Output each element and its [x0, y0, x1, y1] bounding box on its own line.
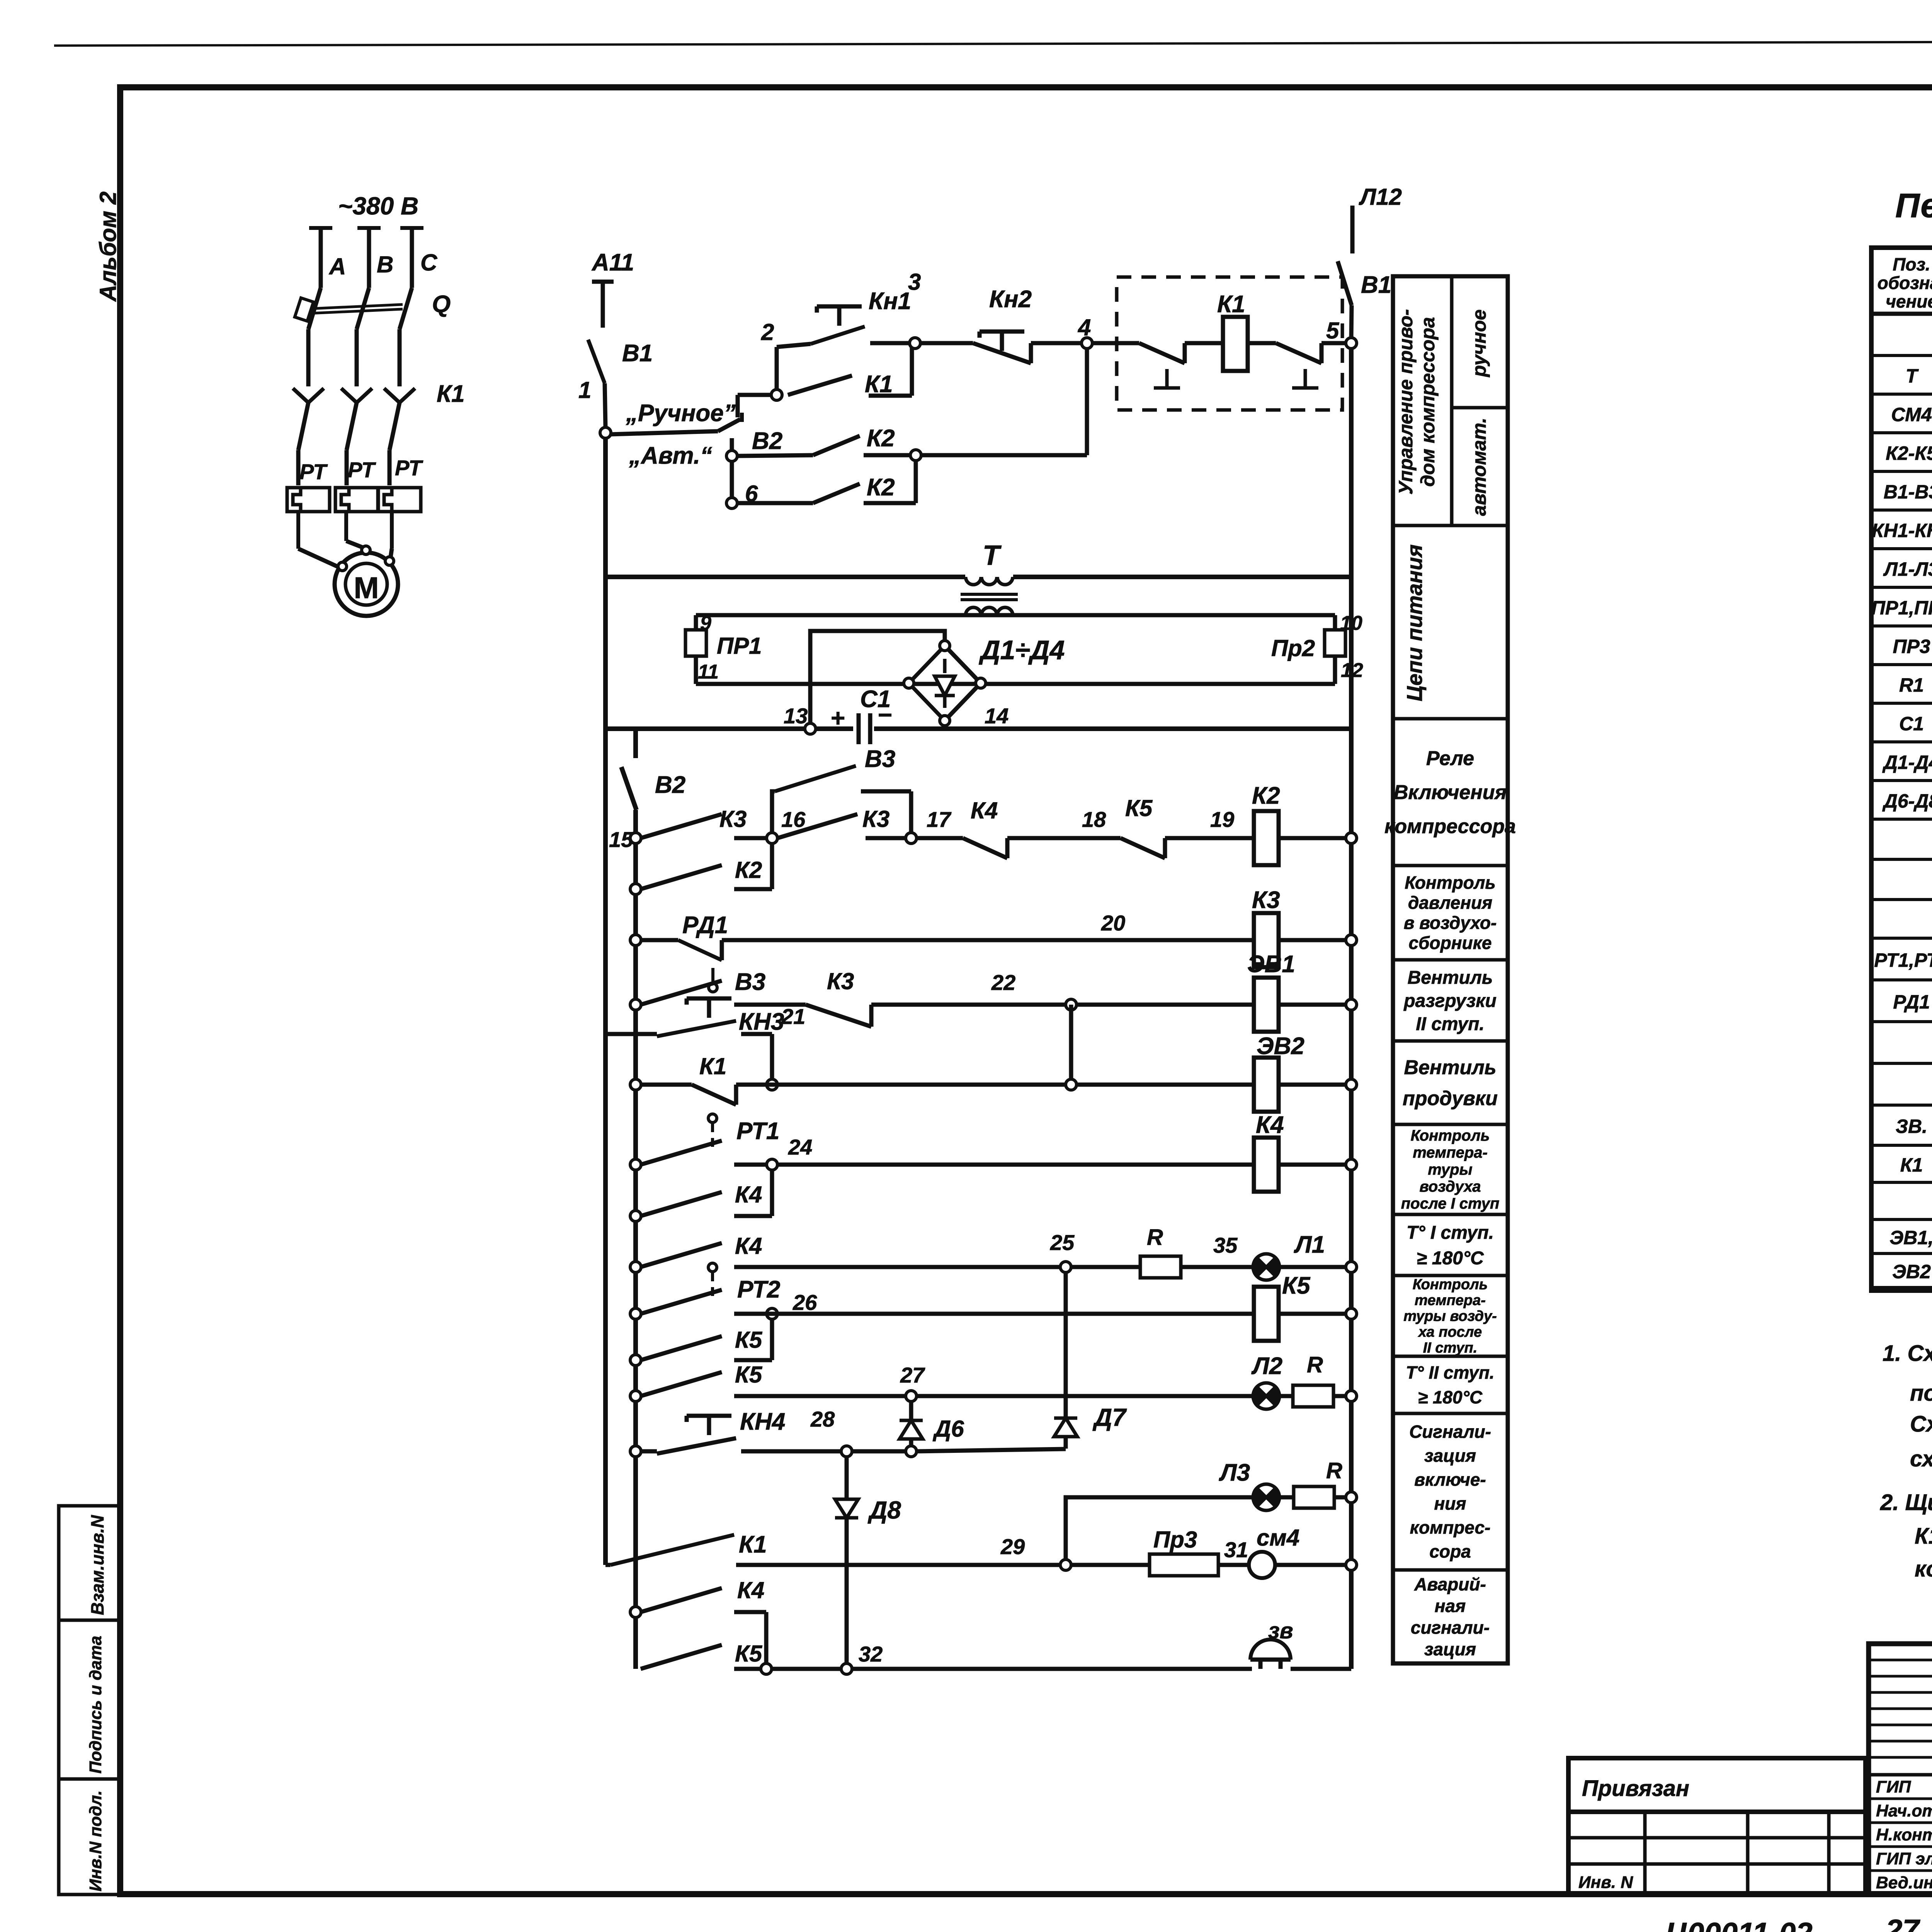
svg-text:В1-В3: В1-В3 [1884, 481, 1932, 503]
svg-text:К1: К1 [865, 371, 893, 398]
svg-text:СМ4: СМ4 [1891, 404, 1932, 425]
svg-text:ха после: ха после [1418, 1324, 1482, 1340]
svg-text:19: 19 [1210, 807, 1234, 832]
svg-text:КН4: КН4 [740, 1408, 785, 1435]
svg-text:Инв.N подл.: Инв.N подл. [86, 1790, 105, 1891]
svg-text:24: 24 [788, 1135, 812, 1159]
svg-text:темпера-: темпера- [1415, 1292, 1486, 1308]
svg-text:ЭВ1: ЭВ1 [1247, 951, 1295, 978]
svg-text:Т° II ступ.: Т° II ступ. [1406, 1362, 1494, 1383]
svg-text:29: 29 [1000, 1534, 1025, 1559]
svg-text:Цепи питания: Цепи питания [1402, 544, 1427, 701]
svg-text:R: R [1147, 1225, 1163, 1250]
svg-text:К1: К1 [739, 1531, 767, 1558]
svg-text:компрессора: компрессора [1384, 815, 1516, 838]
svg-text:Управление приво-: Управление приво- [1395, 309, 1417, 495]
svg-text:К4: К4 [971, 798, 998, 823]
svg-text:ПР1,ПР2: ПР1,ПР2 [1871, 597, 1932, 619]
svg-text:Кн2: Кн2 [989, 286, 1032, 313]
svg-text:РТ1: РТ1 [736, 1118, 779, 1145]
svg-text:К2-К5: К2-К5 [1886, 442, 1932, 464]
svg-text:схема аналогична.: схема аналогична. [1910, 1446, 1932, 1471]
svg-text:Л3: Л3 [1219, 1459, 1250, 1486]
svg-text:С1: С1 [1899, 713, 1924, 735]
svg-text:В2: В2 [752, 428, 782, 454]
svg-text:К4: К4 [737, 1577, 764, 1603]
svg-text:R1: R1 [1899, 674, 1924, 696]
svg-text:К3: К3 [1252, 887, 1280, 913]
svg-text:21: 21 [781, 1004, 805, 1029]
svg-text:К4: К4 [735, 1233, 762, 1259]
svg-text:К1: К1 [437, 381, 465, 407]
svg-text:1. Схема составлена на осно: 1. Схема составлена на основании инструк… [1883, 1341, 1932, 1366]
svg-text:ГИП эл.: ГИП эл. [1876, 1849, 1932, 1868]
svg-text:Вентиль: Вентиль [1408, 968, 1493, 988]
svg-text:26: 26 [793, 1290, 817, 1315]
svg-text:ЗВ.: ЗВ. [1896, 1116, 1927, 1137]
svg-text:Л12: Л12 [1359, 184, 1402, 210]
svg-text:К5: К5 [1125, 795, 1153, 821]
svg-text:Контроль: Контроль [1405, 872, 1495, 893]
svg-text:Привязан: Привязан [1582, 1776, 1689, 1801]
svg-text:сигнали-: сигнали- [1411, 1617, 1490, 1638]
svg-text:27: 27 [900, 1363, 925, 1387]
svg-text:Поз.: Поз. [1893, 254, 1930, 274]
svg-text:18: 18 [1082, 807, 1106, 832]
svg-text:РТ: РТ [395, 456, 423, 480]
svg-text:13: 13 [784, 704, 808, 728]
svg-text:К2: К2 [1252, 782, 1280, 809]
svg-text:В1: В1 [1361, 272, 1391, 298]
svg-text:ЭВ2: ЭВ2 [1257, 1033, 1304, 1060]
svg-text:Q: Q [432, 291, 451, 318]
svg-text:В1: В1 [622, 340, 653, 367]
svg-text:Т° I ступ.: Т° I ступ. [1406, 1223, 1494, 1243]
svg-text:31: 31 [1224, 1537, 1248, 1562]
svg-text:РД1: РД1 [682, 912, 728, 939]
svg-text:К1: К1 [699, 1053, 726, 1079]
svg-text:II ступ.: II ступ. [1416, 1014, 1485, 1034]
svg-text:Контроль: Контроль [1413, 1276, 1488, 1293]
svg-text:туры: туры [1428, 1161, 1472, 1178]
svg-text:22: 22 [991, 970, 1015, 995]
svg-text:Вед.инж: Вед.инж [1876, 1873, 1932, 1892]
svg-text:R: R [1307, 1352, 1323, 1378]
svg-text:Кн1: Кн1 [869, 288, 911, 315]
svg-text:см4: см4 [1257, 1525, 1299, 1551]
svg-text:Д6: Д6 [932, 1416, 964, 1442]
svg-text:компрес-: компрес- [1410, 1517, 1491, 1537]
svg-text:РТ1,РТ2: РТ1,РТ2 [1874, 949, 1932, 971]
svg-text:+: + [831, 704, 845, 732]
svg-text:28: 28 [810, 1407, 835, 1431]
svg-text:Альбом 2: Альбом 2 [95, 191, 121, 302]
svg-text:15: 15 [609, 827, 633, 852]
svg-text:Т: Т [1906, 365, 1919, 387]
svg-text:по эксплуатации компрессора: по эксплуатации компрессора ЧВУ1-5/9М2 [1910, 1381, 1932, 1406]
svg-text:ЭВ1,: ЭВ1, [1889, 1227, 1932, 1248]
svg-text:В3: В3 [865, 746, 895, 772]
svg-text:К5: К5 [735, 1362, 763, 1388]
svg-text:Д1-Д4: Д1-Д4 [1882, 752, 1932, 773]
svg-text:Контроль: Контроль [1411, 1127, 1490, 1144]
svg-text:Д6-Д8: Д6-Д8 [1882, 790, 1932, 812]
svg-text:1: 1 [578, 377, 591, 403]
svg-text:Д1÷Д4: Д1÷Д4 [979, 635, 1065, 665]
svg-text:ния: ния [1434, 1493, 1466, 1514]
svg-text:К2: К2 [735, 857, 762, 883]
svg-text:6: 6 [745, 481, 758, 507]
svg-text:С1: С1 [860, 686, 891, 713]
svg-text:Реле: Реле [1426, 747, 1474, 770]
svg-text:темпера-: темпера- [1413, 1144, 1488, 1161]
svg-text:РТ: РТ [299, 459, 328, 484]
svg-text:Инв. N: Инв. N [1578, 1873, 1633, 1892]
svg-text:сборнике: сборнике [1408, 933, 1492, 953]
svg-text:Вентиль: Вентиль [1404, 1056, 1496, 1079]
svg-text:14: 14 [985, 704, 1009, 728]
svg-text:К4: К4 [735, 1182, 762, 1207]
svg-text:К5: К5 [735, 1327, 763, 1353]
svg-text:„Ручное”: „Ручное” [626, 400, 736, 427]
svg-text:Подпись и дата: Подпись и дата [86, 1636, 105, 1774]
svg-text:ручное: ручное [1468, 310, 1490, 378]
svg-text:К1, ЭВ1, ЭВ2, ЗВ поставляются: К1, ЭВ1, ЭВ2, ЗВ поставляются в комплект… [1915, 1524, 1932, 1549]
svg-text:2. Щит управления, щит приборо: 2. Щит управления, щит приборов, аппарат… [1880, 1490, 1932, 1515]
svg-text:ПР3: ПР3 [1893, 636, 1930, 657]
svg-text:Н.контр.: Н.контр. [1876, 1825, 1932, 1844]
svg-text:A: A [328, 253, 346, 279]
svg-text:ЭВ2: ЭВ2 [1892, 1261, 1931, 1282]
svg-text:Включения: Включения [1394, 781, 1507, 804]
svg-text:в воздухо-: в воздухо- [1404, 913, 1497, 933]
svg-text:M: M [354, 571, 379, 605]
svg-text:≥ 180°С: ≥ 180°С [1418, 1387, 1483, 1407]
svg-text:К3: К3 [719, 806, 747, 832]
svg-text:27: 27 [1885, 1913, 1920, 1932]
svg-text:Д8: Д8 [867, 1496, 901, 1524]
svg-text:туры возду-: туры возду- [1403, 1308, 1497, 1324]
svg-text:К2: К2 [867, 474, 895, 501]
svg-text:Сигнали-: Сигнали- [1409, 1422, 1491, 1442]
svg-text:К3: К3 [862, 806, 889, 832]
svg-text:17: 17 [927, 807, 952, 832]
svg-text:ная: ная [1435, 1596, 1466, 1616]
svg-text:компрессорным агрегатом.: компрессорным агрегатом. [1915, 1556, 1932, 1582]
svg-text:5: 5 [1326, 318, 1340, 344]
svg-text:Л1: Л1 [1294, 1231, 1325, 1258]
svg-text:4: 4 [1078, 315, 1091, 340]
svg-text:Пр3: Пр3 [1153, 1527, 1197, 1553]
svg-text:R: R [1326, 1458, 1342, 1483]
svg-text:32: 32 [859, 1642, 883, 1666]
svg-text:II ступ.: II ступ. [1423, 1340, 1478, 1356]
svg-text:Д7: Д7 [1092, 1403, 1127, 1431]
svg-text:Аварий-: Аварий- [1414, 1574, 1486, 1594]
svg-text:Л1-Л3: Л1-Л3 [1883, 558, 1932, 580]
svg-text:РТ: РТ [348, 457, 376, 482]
svg-text:включе-: включе- [1414, 1469, 1486, 1490]
svg-text:Т: Т [983, 540, 1002, 571]
svg-text:B: B [377, 252, 393, 277]
svg-text:9: 9 [700, 612, 711, 634]
svg-text:≥ 180°С: ≥ 180°С [1417, 1248, 1484, 1269]
svg-text:К2: К2 [867, 425, 895, 452]
svg-text:ГИП: ГИП [1876, 1777, 1912, 1796]
svg-text:зация: зация [1424, 1446, 1476, 1466]
svg-text:автомат.: автомат. [1468, 418, 1490, 516]
svg-text:обозна-: обозна- [1878, 273, 1932, 293]
svg-text:~380 В: ~380 В [338, 192, 418, 220]
svg-text:Нач.отд: Нач.отд [1876, 1801, 1932, 1820]
svg-text:Пр2: Пр2 [1271, 635, 1315, 661]
svg-text:разгрузки: разгрузки [1403, 991, 1497, 1011]
svg-text:11: 11 [698, 661, 719, 683]
svg-text:воздуха: воздуха [1420, 1178, 1481, 1195]
svg-text:К3: К3 [827, 968, 854, 994]
svg-text:К5: К5 [735, 1641, 763, 1667]
svg-text:зв: зв [1268, 1618, 1293, 1643]
svg-text:РД1: РД1 [1893, 991, 1930, 1013]
svg-text:РТ2: РТ2 [737, 1276, 780, 1303]
svg-text:Схема дана для компрессора: Схема дана для компрессора N1, для компр… [1910, 1412, 1932, 1437]
svg-text:продувки: продувки [1403, 1087, 1498, 1110]
svg-text:А11: А11 [591, 249, 634, 276]
svg-text:2: 2 [761, 319, 774, 345]
svg-text:„Авт.“: „Авт.“ [629, 442, 712, 469]
svg-text:после I ступ: после I ступ [1401, 1195, 1500, 1212]
svg-text:КН3: КН3 [739, 1009, 784, 1035]
svg-text:КН1-КН4: КН1-КН4 [1872, 520, 1932, 541]
svg-text:В2: В2 [655, 772, 685, 798]
svg-text:К1: К1 [1217, 291, 1245, 318]
svg-text:В3: В3 [735, 969, 765, 995]
svg-text:Л2: Л2 [1251, 1353, 1282, 1379]
svg-text:К5: К5 [1282, 1272, 1311, 1299]
svg-text:20: 20 [1101, 911, 1125, 935]
svg-text:ПР1: ПР1 [717, 633, 762, 659]
svg-text:зация: зация [1424, 1639, 1476, 1659]
svg-text:дом компрессора: дом компрессора [1417, 317, 1439, 486]
svg-text:3: 3 [908, 269, 921, 295]
svg-text:К4: К4 [1256, 1112, 1284, 1138]
svg-text:чение: чение [1886, 291, 1932, 311]
svg-text:Ц00011-02: Ц00011-02 [1665, 1916, 1813, 1932]
svg-text:К1: К1 [1900, 1154, 1923, 1176]
svg-text:16: 16 [781, 807, 806, 832]
svg-text:Перечень элементов принципиаль: Перечень элементов принципиальной схемы [1895, 186, 1932, 224]
svg-text:35: 35 [1213, 1233, 1238, 1257]
svg-text:25: 25 [1050, 1230, 1075, 1255]
svg-text:Взам.инв.N: Взам.инв.N [87, 1515, 107, 1615]
svg-text:давления: давления [1408, 893, 1492, 913]
svg-text:C: C [420, 250, 438, 276]
svg-text:сора: сора [1429, 1541, 1471, 1561]
